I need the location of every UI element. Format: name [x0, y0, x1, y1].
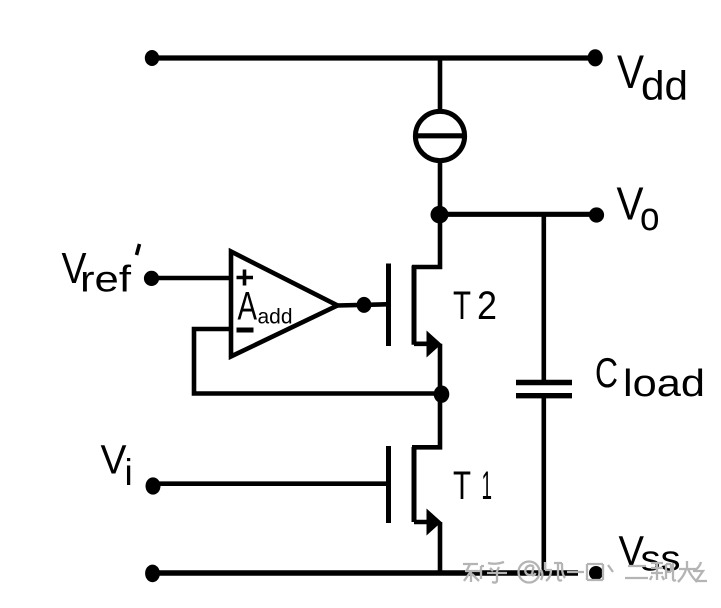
wire T2 drain: [412, 214, 440, 267]
node op-amp output: [357, 297, 372, 313]
label T1: [453, 464, 492, 508]
svg-text:T: T: [453, 464, 471, 508]
wire current source upper stem: [438, 58, 443, 112]
wire Vo rail: [440, 212, 596, 217]
svg-text:i: i: [125, 452, 133, 493]
node Vo terminal: [589, 207, 604, 222]
op-amp plus marking: [237, 270, 254, 286]
label Vss: [619, 527, 681, 579]
label Vo: [617, 178, 660, 240]
label Vdd: [617, 45, 688, 109]
node top-left terminal: [145, 50, 159, 66]
wire op-amp output to T2 gate: [337, 304, 391, 305]
transistor T1: [389, 446, 442, 536]
svg-text:T: T: [453, 284, 471, 328]
wire capacitor upper branch: [541, 214, 546, 382]
node Vo junction: [431, 206, 449, 224]
wire capacitor lower branch: [541, 396, 546, 573]
wire Vi to T1 gate: [153, 481, 391, 486]
wire T1 drain: [412, 394, 440, 447]
label Aadd: [238, 285, 293, 329]
wire Vss bottom rail: [152, 570, 578, 575]
capacitor Cload: [516, 383, 572, 396]
wire Vdd top rail: [152, 55, 596, 60]
svg-text:dd: dd: [641, 63, 688, 109]
watermark zhihu: [463, 561, 707, 583]
svg-text:2: 2: [477, 284, 497, 328]
wire T1 source vertical: [438, 522, 443, 573]
label Vi: [101, 437, 133, 494]
current source I1: [414, 111, 466, 160]
wire current source lower stem: [438, 160, 443, 216]
label T2: [453, 284, 497, 328]
label Vref': [62, 244, 140, 300]
svg-text:C: C: [595, 349, 618, 396]
wire T2 source vertical: [438, 344, 443, 395]
svg-text:V: V: [101, 437, 128, 483]
op-amp U1 Aadd: [231, 252, 338, 357]
node bottom-left terminal: [145, 565, 160, 583]
label Cload: [595, 349, 705, 405]
transistor T2: [389, 264, 442, 358]
node feedback junction: [434, 386, 450, 403]
node Vi terminal: [146, 477, 161, 494]
svg-text:A: A: [238, 285, 258, 329]
op-amp minus marking: [237, 328, 254, 333]
node Vref terminal: [144, 271, 159, 286]
svg-text:ref: ref: [80, 259, 132, 300]
svg-text:1: 1: [482, 464, 493, 508]
svg-text:load: load: [623, 363, 705, 405]
wire Vref to noninverting input: [151, 276, 231, 281]
wire feedback path: [194, 329, 440, 394]
node top-right terminal: [588, 49, 603, 66]
svg-text:o: o: [640, 195, 660, 239]
svg-text:add: add: [258, 306, 293, 329]
node bottom-right terminal: [589, 566, 603, 580]
